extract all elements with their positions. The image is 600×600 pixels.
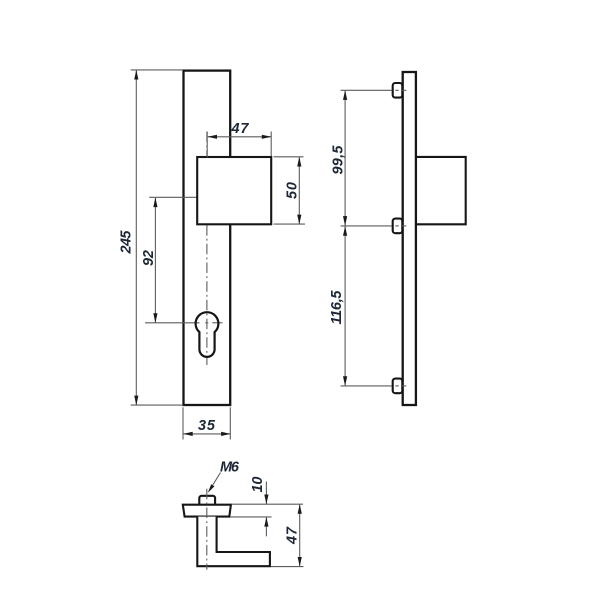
side view plate outline <box>403 72 416 405</box>
dimension 47 arrow left <box>207 135 217 139</box>
dimension 92 arrow down <box>153 313 157 323</box>
dimension 116,5 line <box>344 226 346 385</box>
svg-text:35: 35 <box>198 418 216 434</box>
screw bottom centreline <box>341 385 392 387</box>
dimension 35 arrow right <box>221 432 231 436</box>
svg-text:10: 10 <box>250 477 266 493</box>
dimension 245 extension line bottom <box>131 404 183 406</box>
handle square block front view <box>197 157 271 224</box>
dimension 245 line <box>135 71 137 405</box>
dimension 50 extension line top <box>274 156 304 158</box>
svg-text:M6: M6 <box>220 460 240 476</box>
dimension 10 arrow up <box>264 517 268 527</box>
svg-text:92: 92 <box>141 250 157 266</box>
dimension 50 line <box>298 157 300 223</box>
detail view L-shaped handle section <box>197 517 270 567</box>
dimension 116,5 arrow down <box>343 376 347 386</box>
detail centreline (dash-dot) <box>206 489 208 570</box>
M6 leader line <box>210 473 221 490</box>
front view plate outline <box>184 71 231 405</box>
dimension 245 extension line top <box>131 69 183 71</box>
keyhole euro profile <box>196 312 219 357</box>
dimension 35 line <box>184 433 230 435</box>
svg-text:47: 47 <box>284 526 300 545</box>
dimension 116,5 arrow up <box>343 226 347 236</box>
dimension 47 line <box>208 136 271 138</box>
detail view flange <box>183 505 231 517</box>
svg-text:50: 50 <box>285 182 301 199</box>
svg-text:245: 245 <box>119 230 135 255</box>
detail extension line arm bottom <box>271 566 304 568</box>
svg-text:99,5: 99,5 <box>330 145 346 175</box>
keyhole centre dash segment <box>212 322 222 324</box>
dimension 10 arrow down <box>264 495 268 505</box>
plate vertical centreline (dash-dot) <box>206 132 208 365</box>
dimension 35 extension line right <box>229 407 231 439</box>
dimension 10 line lower <box>265 517 267 536</box>
screw top centreline <box>341 89 392 91</box>
dimension 10 line upper <box>265 482 267 504</box>
dimension 50 arrow up <box>297 157 301 167</box>
dimension 47 extension line right <box>270 132 272 157</box>
dimension 47 detail line <box>299 505 301 567</box>
dimension 47 arrow right <box>262 135 272 139</box>
dimension 99,5 line <box>344 91 346 226</box>
dimension 92 arrow up <box>153 198 157 208</box>
screw head middle <box>393 219 403 234</box>
dimension 92 extension line top (handle centre) <box>149 196 199 198</box>
dimension 50 extension line bottom <box>274 223 306 225</box>
handle centre dash segment <box>204 196 216 198</box>
M6 leader arrow <box>208 484 215 493</box>
screw head top <box>393 83 403 98</box>
dimension 92 line <box>154 198 156 322</box>
dimension 50 arrow down <box>297 215 301 225</box>
dimension 35 arrow left <box>183 432 193 436</box>
dimension 47 detail arrow down <box>298 557 302 567</box>
screw head bottom <box>393 379 403 394</box>
screw middle centreline <box>341 225 392 227</box>
dimension 99,5 arrow down <box>343 216 347 226</box>
dimension 99,5 arrow up <box>343 90 347 100</box>
detail view screw head <box>199 496 215 505</box>
svg-text:47: 47 <box>231 121 250 137</box>
detail extension line flange bottom <box>230 516 272 518</box>
detail extension line flange top <box>232 503 304 505</box>
side view handle block <box>416 157 466 224</box>
dimension 245 arrow up <box>134 70 138 80</box>
svg-text:116,5: 116,5 <box>329 290 345 325</box>
keyhole centre dot <box>205 322 208 324</box>
dimension 47 detail arrow up <box>298 504 302 514</box>
dimension 245 arrow down <box>134 396 138 406</box>
dimension 92 extension line bottom (keyhole centre) <box>145 322 200 324</box>
dimension 47 extension line left <box>206 132 208 158</box>
dimension 35 extension line left <box>182 407 184 439</box>
